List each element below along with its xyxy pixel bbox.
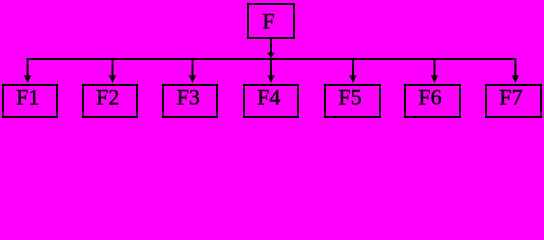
svg-text:F2: F2 <box>96 85 119 110</box>
svg-text:F4: F4 <box>257 85 280 110</box>
svg-text:F6: F6 <box>418 85 441 110</box>
svg-text:F: F <box>262 9 274 34</box>
svg-text:F5: F5 <box>338 85 361 110</box>
svg-text:F7: F7 <box>499 85 522 110</box>
svg-text:F1: F1 <box>16 85 39 110</box>
svg-text:F3: F3 <box>177 85 200 110</box>
